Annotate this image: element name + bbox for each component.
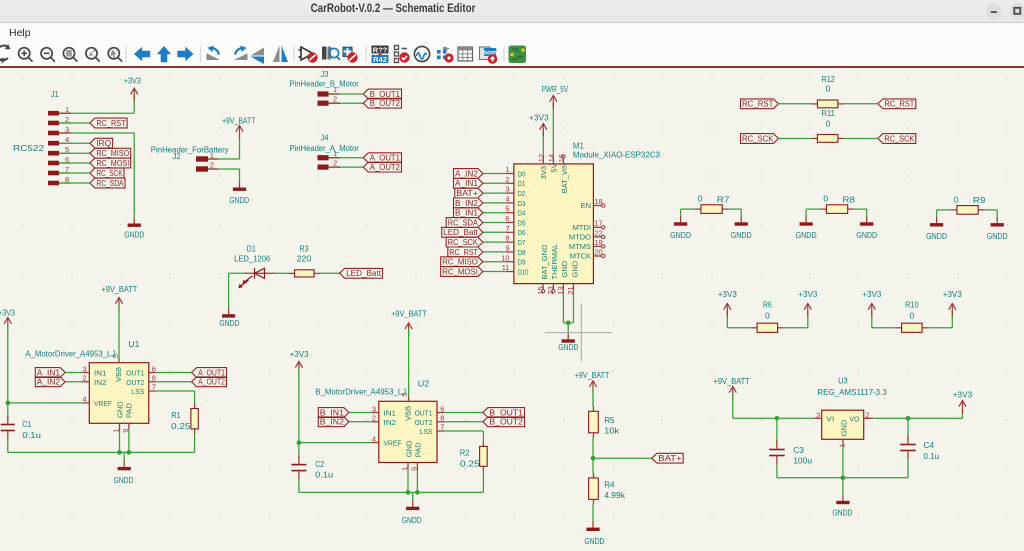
svg-text:GNDD: GNDD xyxy=(832,508,852,518)
svg-text:R3: R3 xyxy=(300,244,309,254)
svg-text:U1: U1 xyxy=(128,339,139,349)
power +3V3 J1 xyxy=(131,88,138,101)
ground GNDD M1 xyxy=(567,333,569,339)
svg-text:GND: GND xyxy=(115,401,124,418)
svg-text:VO: VO xyxy=(849,415,859,424)
global label B_IN2 M1 xyxy=(454,198,483,208)
svg-text:GNDD: GNDD xyxy=(124,229,144,239)
svg-text:RC_SCK: RC_SCK xyxy=(742,134,774,143)
icon footprint check xyxy=(343,47,353,57)
wire J1 pin3 to GNDD xyxy=(59,132,134,134)
svg-text:R11: R11 xyxy=(822,108,836,118)
svg-text:0: 0 xyxy=(909,310,914,320)
svg-text:+9V_BATT: +9V_BATT xyxy=(714,376,750,386)
wire RC_SCK left xyxy=(778,138,811,140)
icon ERC xyxy=(299,47,314,60)
M1 pin 14 5V to PWR_5V xyxy=(552,157,554,164)
svg-text:R2: R2 xyxy=(460,448,470,458)
junction U2 PAD xyxy=(415,490,420,495)
svg-text:5: 5 xyxy=(505,204,509,213)
global label IRQ xyxy=(90,138,113,148)
svg-text:9: 9 xyxy=(505,244,509,253)
global label A_IN2 xyxy=(35,377,65,387)
svg-text:IN1: IN1 xyxy=(384,409,397,418)
svg-text:PWR_5V: PWR_5V xyxy=(542,84,569,94)
svg-text:IN2: IN2 xyxy=(94,378,107,387)
svg-text:IN2: IN2 xyxy=(384,418,397,427)
svg-text:R1: R1 xyxy=(171,410,181,420)
wire U3 output xyxy=(873,417,962,419)
global label RC_RST xyxy=(90,118,127,128)
icon redo xyxy=(234,53,248,60)
icon symbol fields table xyxy=(458,47,473,61)
wire R8 right xyxy=(854,208,867,210)
svg-text:2: 2 xyxy=(210,161,214,170)
wire J3 pin1 xyxy=(328,93,363,95)
wire R6 left xyxy=(727,327,751,329)
global label LED_Batt xyxy=(340,268,383,278)
wire U3 ground rail xyxy=(777,477,908,479)
wire A_IN2 xyxy=(65,381,82,383)
wire M1 pin 2 A_IN1 xyxy=(483,182,506,184)
svg-text:B_IN1: B_IN1 xyxy=(455,209,478,218)
J1 pad pin 1 xyxy=(48,111,59,116)
ground GNDD U1 xyxy=(123,461,125,467)
global label RC_MISO M1 xyxy=(441,257,483,267)
wire R10 left xyxy=(872,327,896,329)
svg-text:3V3: 3V3 xyxy=(539,166,548,179)
svg-text:B_OUT2: B_OUT2 xyxy=(489,418,523,427)
cursor crosshair xyxy=(545,304,612,362)
global label RC_MISO xyxy=(90,148,131,158)
svg-text:MTDO: MTDO xyxy=(569,233,591,242)
wire U2 VBB xyxy=(408,330,410,397)
J1 pad pin 4 xyxy=(48,141,59,146)
wire U1 VREF xyxy=(82,402,89,404)
svg-text:GNDD: GNDD xyxy=(402,515,422,525)
J1 pad pin 7 xyxy=(48,171,59,176)
svg-text:R9: R9 xyxy=(973,195,986,205)
svg-text:BAT_VIN: BAT_VIN xyxy=(560,163,569,194)
ground GNDD R9 right xyxy=(996,217,998,223)
svg-text:BAT_GND: BAT_GND xyxy=(540,244,549,279)
svg-text:0: 0 xyxy=(954,194,959,204)
wire +9V U3 xyxy=(732,394,734,419)
power +3V3 U2 xyxy=(295,362,302,375)
svg-text:VBB: VBB xyxy=(403,406,412,421)
wire +9V to R5 xyxy=(592,388,594,407)
global label RC_SCK left xyxy=(741,134,779,144)
wire U3 input xyxy=(733,417,813,419)
svg-text:0: 0 xyxy=(826,83,831,93)
wire RC_RST right xyxy=(844,103,878,105)
M1 pin 21 GND xyxy=(573,284,575,290)
svg-text:A_IN1: A_IN1 xyxy=(455,179,478,188)
svg-text:D1: D1 xyxy=(518,179,526,188)
M1 pin 20 MTCK xyxy=(593,255,601,257)
svg-text:R12: R12 xyxy=(822,74,836,84)
wire RC_SCK right xyxy=(844,138,878,140)
svg-text:PinHeader_A_Motor: PinHeader_A_Motor xyxy=(290,143,359,153)
svg-text:RC_RST: RC_RST xyxy=(742,100,773,109)
wire D1 to GNDD xyxy=(228,273,230,308)
svg-text:+3V3: +3V3 xyxy=(124,76,142,86)
svg-text:THERMAL: THERMAL xyxy=(550,244,559,280)
svg-text:+3V3: +3V3 xyxy=(529,112,549,122)
global label A_IN1 M1 xyxy=(454,178,483,188)
svg-text:RC_MISO: RC_MISO xyxy=(442,258,478,267)
wire J1 RC_SCK xyxy=(59,172,90,174)
icon refresh view xyxy=(0,46,9,61)
svg-text:RC_RST: RC_RST xyxy=(449,248,478,257)
svg-text:A_IN2: A_IN2 xyxy=(37,378,61,387)
global label B_IN1 xyxy=(318,408,349,418)
svg-text:VREF: VREF xyxy=(384,439,402,448)
wire R8 left xyxy=(806,208,820,210)
wire M1 GND join xyxy=(563,322,573,324)
svg-text:R7: R7 xyxy=(717,194,730,204)
wire M1 pin 6 RC_SDA xyxy=(483,222,506,224)
global label LED_Batt M1 xyxy=(442,227,483,237)
svg-text:1: 1 xyxy=(333,149,337,158)
ground GNDD R8 left xyxy=(805,216,807,222)
svg-text:A_OUT2: A_OUT2 xyxy=(198,378,225,387)
global label RC_SDA M1 xyxy=(446,218,483,228)
svg-text:GNDD: GNDD xyxy=(731,230,752,240)
svg-text:Module_XIAO-ESP32C3: Module_XIAO-ESP32C3 xyxy=(573,150,660,160)
icon zoom selection xyxy=(108,48,122,62)
svg-text:+3V3: +3V3 xyxy=(943,289,962,299)
svg-text:B_IN2: B_IN2 xyxy=(455,199,478,208)
svg-text:RC_MOSI: RC_MOSI xyxy=(442,267,478,276)
svg-text:PAD: PAD xyxy=(414,442,423,457)
svg-text:PAD: PAD xyxy=(125,403,134,418)
global label A_OUT1 U1 xyxy=(192,368,227,378)
svg-text:4: 4 xyxy=(505,195,509,204)
icon BOM xyxy=(480,47,491,60)
ground GNDD U3 xyxy=(842,495,844,501)
wire A_OUT2 xyxy=(156,381,192,383)
svg-text:5V: 5V xyxy=(550,163,559,172)
wire R4 to GNDD xyxy=(592,504,594,521)
svg-text:+9V_BATT: +9V_BATT xyxy=(575,370,610,380)
icon hierarchy search xyxy=(322,47,327,60)
ground GNDD J2 xyxy=(239,182,241,188)
global label B_IN1 M1 xyxy=(454,208,483,218)
svg-text:B_MotorDriver_A4953_LJ: B_MotorDriver_A4953_LJ xyxy=(315,387,406,397)
wire C1 to GND rail xyxy=(7,440,9,453)
svg-text:4.99k: 4.99k xyxy=(604,490,626,500)
wire R6 right xyxy=(784,327,808,329)
svg-text:GND: GND xyxy=(839,419,848,436)
wire R10 right xyxy=(928,327,952,329)
svg-text:14: 14 xyxy=(547,154,556,162)
J3 pad pin1 xyxy=(318,91,329,96)
svg-text:OUT1: OUT1 xyxy=(126,369,144,378)
svg-text:5: 5 xyxy=(400,393,409,397)
svg-text:0.1u: 0.1u xyxy=(924,451,940,461)
svg-text:15: 15 xyxy=(536,286,545,294)
junction U3 GND xyxy=(841,476,846,481)
global label RC_MOSI xyxy=(90,158,131,168)
svg-text:A_OUT1: A_OUT1 xyxy=(370,154,401,163)
wire B_OUT2 xyxy=(444,421,483,423)
wire M1 pin 5 B_IN1 xyxy=(483,212,506,214)
wire J4 pin1 xyxy=(328,157,363,159)
power +3V3 R10 right xyxy=(949,304,956,317)
M1 pin 13 GND xyxy=(562,284,564,290)
J3 pad pin2 xyxy=(318,101,329,106)
svg-text:GNDD: GNDD xyxy=(114,475,134,485)
svg-text:IRQ: IRQ xyxy=(96,139,111,148)
svg-text:LED_1206: LED_1206 xyxy=(234,253,270,263)
svg-text:D4: D4 xyxy=(518,209,526,218)
svg-text:17: 17 xyxy=(594,219,602,228)
M1 pin 16 BAT_VIN unconnected xyxy=(562,159,564,164)
wire +3V3 rail U2 xyxy=(298,369,300,460)
ground GNDD divider xyxy=(592,522,594,528)
svg-text:8: 8 xyxy=(505,234,509,243)
svg-text:6: 6 xyxy=(505,214,509,223)
svg-text:2: 2 xyxy=(333,158,337,167)
svg-text:20: 20 xyxy=(594,247,602,256)
J1 pad pin 2 xyxy=(48,121,59,126)
wire M1 pin 1 A_IN2 xyxy=(483,173,506,175)
svg-text:GNDD: GNDD xyxy=(558,342,578,352)
svg-text:R42: R42 xyxy=(373,55,387,64)
svg-text:IN1: IN1 xyxy=(94,369,107,378)
global label B_IN2 xyxy=(318,417,349,427)
svg-text:J3: J3 xyxy=(321,69,329,79)
svg-text:GNDD: GNDD xyxy=(856,230,877,240)
svg-text:GNDD: GNDD xyxy=(796,230,817,240)
icon zoom out xyxy=(41,48,55,62)
svg-text:C2: C2 xyxy=(315,459,324,469)
svg-text:7: 7 xyxy=(152,383,156,392)
wire U2 VREF xyxy=(372,442,379,444)
wire J1 RC_MISO xyxy=(59,152,90,154)
svg-text:1: 1 xyxy=(333,85,337,94)
svg-text:16: 16 xyxy=(557,154,566,162)
svg-text:MTCK: MTCK xyxy=(570,252,591,261)
svg-text:1: 1 xyxy=(837,444,846,448)
svg-text:B_OUT1: B_OUT1 xyxy=(370,90,401,99)
J4 pad pin2 xyxy=(318,165,329,170)
wire to GNDD U1 xyxy=(123,452,125,461)
global label RC_RST right xyxy=(878,99,916,109)
ground GNDD R7 right xyxy=(740,216,742,222)
svg-text:+3V3: +3V3 xyxy=(718,289,737,299)
wire A_OUT1 xyxy=(156,372,192,374)
svg-text:J4: J4 xyxy=(321,132,329,142)
wire J3 pin2 xyxy=(328,102,363,104)
ground GNDD R8 right xyxy=(866,216,868,222)
wire R1 to GND rail xyxy=(194,434,196,453)
J2 pad pin2 xyxy=(196,166,208,171)
svg-text:22: 22 xyxy=(594,228,602,237)
svg-text:PinHeader_B_Motor: PinHeader_B_Motor xyxy=(290,78,359,88)
wire M1 pin 8 RC_SCK xyxy=(483,241,506,243)
global label B_OUT2 U2 xyxy=(483,417,525,427)
svg-text:RC_MISO: RC_MISO xyxy=(96,149,129,158)
junction U2 GND xyxy=(406,490,411,495)
svg-text:100u: 100u xyxy=(793,456,812,466)
ground GNDD D1 xyxy=(228,308,230,314)
icon navigate left xyxy=(134,47,150,61)
svg-text:D8: D8 xyxy=(518,248,526,257)
wire U1 VBB xyxy=(118,305,120,359)
power +9V_BATT J2 xyxy=(236,126,243,139)
wire R7 right xyxy=(728,208,741,210)
svg-text:BAT+: BAT+ xyxy=(658,454,682,463)
svg-text:VBB: VBB xyxy=(114,367,123,382)
wire J2 pin2 xyxy=(208,168,240,170)
svg-text:B_IN2: B_IN2 xyxy=(320,418,345,427)
svg-text:RC_SDA: RC_SDA xyxy=(448,218,479,227)
svg-text:RC_SCK: RC_SCK xyxy=(448,238,479,247)
svg-text:MTMS: MTMS xyxy=(569,242,591,251)
wire B_IN1 xyxy=(349,412,372,414)
power +3V3 R6 left xyxy=(724,304,731,317)
svg-text:GNDD: GNDD xyxy=(219,318,239,328)
svg-text:+3V3: +3V3 xyxy=(862,289,881,299)
junction U1 PAD xyxy=(127,450,132,455)
wire J1 pin1 to +3V3 xyxy=(59,112,134,114)
svg-text:C3: C3 xyxy=(793,445,804,455)
wire M1 pin 9 RC_RST xyxy=(483,251,506,253)
wire M1 pin 3 BAT+ xyxy=(483,192,506,194)
wire R5 to R4 xyxy=(592,438,594,473)
svg-text:GND: GND xyxy=(570,260,579,277)
svg-text:D6: D6 xyxy=(518,228,526,237)
U2 GND PAD pins xyxy=(407,463,409,470)
svg-text:A_IN2: A_IN2 xyxy=(455,169,478,178)
ground GNDD R9 left xyxy=(936,217,938,223)
svg-text:0.25: 0.25 xyxy=(171,421,191,431)
M1 pin 19 MTMS xyxy=(593,245,601,247)
global label RC_SCK M1 xyxy=(446,237,483,247)
svg-text:0.1u: 0.1u xyxy=(315,470,333,480)
power +3V3 R10 left xyxy=(868,304,875,317)
svg-text:OUT2: OUT2 xyxy=(126,378,144,387)
svg-text:A_MotorDriver_A4953_LJ: A_MotorDriver_A4953_LJ xyxy=(25,348,115,358)
svg-text:RC_SCK: RC_SCK xyxy=(96,169,123,178)
svg-text:11: 11 xyxy=(502,263,510,272)
power +9V_BATT divider xyxy=(589,381,596,394)
svg-text:7: 7 xyxy=(440,423,444,432)
global label BAT+ M1 xyxy=(455,188,483,198)
ground GNDD J1 xyxy=(133,218,135,224)
svg-text:RC_RST: RC_RST xyxy=(884,100,914,109)
global label BAT+ xyxy=(652,453,683,463)
icon electrical rules xyxy=(395,46,399,63)
svg-text:13: 13 xyxy=(556,286,565,294)
icon zoom in xyxy=(19,48,33,62)
power +9V_BATT U2 xyxy=(405,323,412,336)
J4 pad pin1 xyxy=(318,155,329,160)
junction C4 xyxy=(906,416,911,421)
svg-text:A_OUT1: A_OUT1 xyxy=(198,368,225,377)
svg-text:J2: J2 xyxy=(173,151,181,161)
svg-text:B_OUT2: B_OUT2 xyxy=(370,99,401,108)
power +9V_BATT U1 xyxy=(115,298,122,311)
svg-text:19: 19 xyxy=(594,238,602,247)
svg-text:R??: R?? xyxy=(373,45,388,54)
wire B_OUT1 xyxy=(444,412,483,414)
svg-text:10k: 10k xyxy=(604,426,620,436)
wire RC_RST left xyxy=(778,103,811,105)
svg-text:RC522: RC522 xyxy=(13,143,44,153)
svg-text:D1: D1 xyxy=(247,244,256,254)
svg-text:D9: D9 xyxy=(518,258,526,267)
global label RC_RST M1 xyxy=(448,247,483,257)
svg-text:GNDD: GNDD xyxy=(670,230,691,240)
icon mirror vertical xyxy=(251,48,265,56)
global label A_IN2 M1 xyxy=(454,169,483,179)
power PWR_5V xyxy=(550,96,557,109)
wire J1 RC_RST xyxy=(59,122,90,124)
wire A_IN1 xyxy=(65,372,82,374)
wire to GNDD U3 xyxy=(842,478,844,495)
svg-text:A_OUT2: A_OUT2 xyxy=(370,163,401,172)
svg-text:C1: C1 xyxy=(22,419,31,429)
svg-text:23: 23 xyxy=(546,286,555,294)
svg-text:+3V3: +3V3 xyxy=(953,390,973,400)
M1 pin 22 MTDO xyxy=(593,236,601,238)
svg-text:+3V3: +3V3 xyxy=(798,289,817,299)
svg-text:BAT+: BAT+ xyxy=(456,189,478,198)
svg-text:GNDD: GNDD xyxy=(229,195,249,205)
svg-text:U2: U2 xyxy=(418,379,430,389)
wire U2 LSS to R2 xyxy=(437,430,444,432)
svg-text:220: 220 xyxy=(297,253,312,263)
power +3V3 U3 xyxy=(962,408,964,419)
svg-text:PinHeader_ForBattery: PinHeader_ForBattery xyxy=(151,144,229,154)
icon simulator xyxy=(414,46,429,61)
J2 pad pin1 xyxy=(196,156,208,161)
svg-text:C4: C4 xyxy=(924,440,935,450)
svg-text:U3: U3 xyxy=(838,376,848,386)
ground GNDD R7 left xyxy=(680,216,682,222)
global label A_IN1 xyxy=(35,368,65,378)
junction U1 VREF xyxy=(6,401,11,406)
wire to BAT+ xyxy=(593,457,652,459)
svg-text:2: 2 xyxy=(333,95,337,104)
global label A_OUT2 U1 xyxy=(192,377,227,387)
svg-text:7: 7 xyxy=(505,224,509,233)
svg-text:D2: D2 xyxy=(518,189,526,198)
svg-text:VREF: VREF xyxy=(94,399,112,408)
wire M1 pin 11 RC_MOSI xyxy=(483,271,506,273)
svg-text:R4: R4 xyxy=(604,480,615,490)
wire B_IN2 xyxy=(349,421,372,423)
wire J1 RC_MOSI xyxy=(59,162,90,164)
svg-text:MTDI: MTDI xyxy=(573,223,591,232)
wire R7 left xyxy=(681,208,695,210)
svg-text:D3: D3 xyxy=(518,199,526,208)
icon annotate R42 xyxy=(372,46,389,54)
svg-text:LED_Batt: LED_Batt xyxy=(443,228,478,237)
J1 pad pin 5 xyxy=(48,151,59,156)
icon assign footprints xyxy=(437,50,447,59)
svg-text:GNDD: GNDD xyxy=(987,231,1008,241)
svg-text:OUT2: OUT2 xyxy=(415,418,433,427)
icon mirror horizontal xyxy=(273,46,280,63)
global label A_OUT2 J4 xyxy=(363,162,401,172)
svg-text:+3V3: +3V3 xyxy=(290,349,309,359)
svg-text:A_IN1: A_IN1 xyxy=(37,368,61,377)
svg-text:OUT1: OUT1 xyxy=(415,409,433,418)
